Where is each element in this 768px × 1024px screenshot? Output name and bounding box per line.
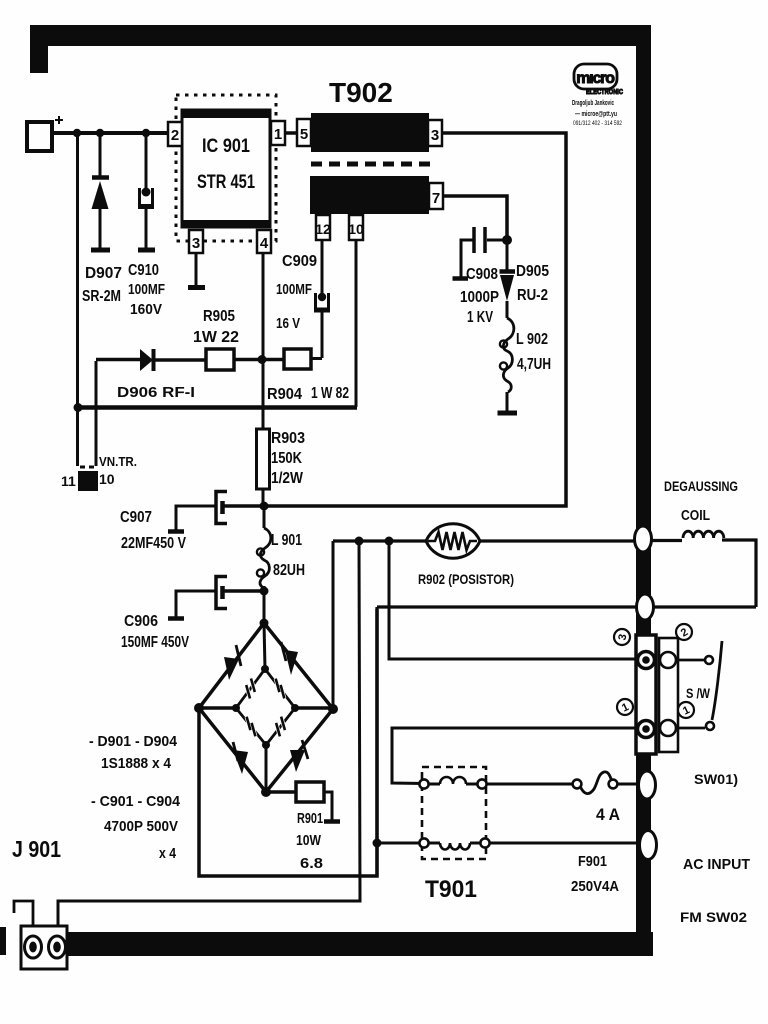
node left vertex xyxy=(194,703,204,713)
svg-text:250V4A: 250V4A xyxy=(571,878,619,895)
diode D901 top-left xyxy=(224,645,241,680)
svg-text:4,7UH: 4,7UH xyxy=(517,356,551,373)
svg-text:150K: 150K xyxy=(271,450,303,467)
resistor R901 xyxy=(266,782,340,822)
node inner left xyxy=(232,704,240,712)
transformer T901 dashed box xyxy=(422,767,486,859)
svg-text:R902 (POSISTOR): R902 (POSISTOR) xyxy=(418,571,514,587)
svg-text:1 KV: 1 KV xyxy=(467,309,493,326)
capacitor C907 xyxy=(168,492,265,532)
node bar terminal AC input xyxy=(640,831,657,860)
node junction dot A xyxy=(73,129,81,137)
TOPRAIL xyxy=(27,116,168,491)
svg-text:C907: C907 xyxy=(120,509,152,526)
svg-text:D906 RF-I: D906 RF-I xyxy=(117,384,195,401)
wire R904 right lead xyxy=(311,357,322,360)
svg-text:SR-2M: SR-2M xyxy=(82,288,121,305)
BRIDGE xyxy=(194,541,377,876)
ground xyxy=(324,819,340,824)
svg-text:mıcro: mıcro xyxy=(576,70,615,87)
svg-text:T901: T901 xyxy=(425,876,477,903)
svg-text:D905: D905 xyxy=(516,263,549,280)
svg-text:3: 3 xyxy=(431,127,439,144)
svg-text:2: 2 xyxy=(171,127,179,144)
svg-text:100MF: 100MF xyxy=(276,281,312,298)
node inner right xyxy=(291,704,299,712)
svg-text:— microe@ptt.yu: — microe@ptt.yu xyxy=(575,109,617,118)
svg-text:1: 1 xyxy=(274,126,282,143)
svg-text:22MF450 V: 22MF450 V xyxy=(121,535,187,552)
node bar terminal degauss return xyxy=(637,594,654,620)
svg-text:R904: R904 xyxy=(267,386,302,403)
wire input to pin2 xyxy=(52,131,168,135)
wire VN.TR. left lead xyxy=(95,361,98,466)
connector block outer xyxy=(659,638,678,752)
pin 5 xyxy=(297,119,311,146)
node junction C906/L901 xyxy=(260,587,269,596)
transformer core dashed line xyxy=(311,162,434,167)
bridge enclosure box xyxy=(199,609,377,876)
label circled 3 xyxy=(614,629,630,645)
svg-text:COIL: COIL xyxy=(681,508,710,524)
connector block inner xyxy=(636,635,656,754)
svg-text:ELECTRONIC: ELECTRONIC xyxy=(586,87,623,96)
svg-text:11: 11 xyxy=(61,473,76,489)
svg-text:Dragoljub Jankovic: Dragoljub Jankovic xyxy=(572,98,614,107)
diode D907 xyxy=(91,133,110,250)
border bottom bar xyxy=(62,932,653,956)
capacitor C901 marks xyxy=(246,679,255,699)
svg-text:x 4: x 4 xyxy=(159,846,176,862)
capacitor C908 xyxy=(453,227,508,279)
capacitor C910 xyxy=(138,133,155,250)
svg-text:C906: C906 xyxy=(124,613,158,630)
LOGO xyxy=(572,64,623,127)
wire inner bottom to bottom vertex xyxy=(265,745,268,792)
ground xyxy=(453,276,469,281)
svg-text:100MF: 100MF xyxy=(128,281,165,298)
capacitor C902 marks xyxy=(276,679,285,699)
svg-text:R905: R905 xyxy=(203,308,235,325)
svg-text:C910: C910 xyxy=(128,262,159,279)
wire left vertex to inner left xyxy=(199,706,236,710)
svg-text:3: 3 xyxy=(192,235,200,252)
pin 7 xyxy=(429,183,443,209)
pin 3 (T902) xyxy=(428,120,442,146)
svg-text:150MF 450V: 150MF 450V xyxy=(121,634,190,651)
label circled 1 left xyxy=(617,699,633,715)
svg-text:4: 4 xyxy=(260,235,269,252)
resistor R905 xyxy=(206,349,234,370)
ACSECTION xyxy=(14,524,756,969)
IC U901 (IC901 STR451) dotted outline xyxy=(176,95,276,241)
svg-text:82UH: 82UH xyxy=(273,562,305,579)
node bar terminal degauss out xyxy=(635,526,652,552)
svg-text:6.8: 6.8 xyxy=(300,856,323,872)
svg-text:5: 5 xyxy=(300,126,308,143)
ground xyxy=(168,616,184,621)
svg-text:L 901: L 901 xyxy=(271,532,302,549)
connector VN.TR. xyxy=(78,467,98,491)
svg-text:DEGAUSSING: DEGAUSSING xyxy=(664,479,738,494)
input terminal box xyxy=(27,122,52,151)
wire top vertex to inner top xyxy=(264,623,265,669)
svg-text:SW01): SW01) xyxy=(694,771,738,787)
plus mark xyxy=(55,116,63,124)
svg-text:16 V: 16 V xyxy=(276,315,300,332)
fuse F901 xyxy=(573,772,640,794)
pin 1 xyxy=(271,121,285,145)
svg-text:10W: 10W xyxy=(296,833,321,849)
svg-text:1 W 82: 1 W 82 xyxy=(311,385,349,402)
resistor R902 posistor xyxy=(426,524,480,559)
pin 3 xyxy=(189,230,203,253)
ground xyxy=(138,248,155,253)
wire J901 left pin xyxy=(14,901,33,926)
T901 winding 2 with terminals xyxy=(377,838,640,849)
diode D906 xyxy=(96,349,206,371)
svg-text:- C901 - C904: - C901 - C904 xyxy=(91,793,181,810)
wire C906 node to bridge top xyxy=(263,591,266,623)
node junction C907/L901/R903 xyxy=(260,502,269,511)
node top vertex xyxy=(260,619,269,628)
svg-text:1/2W: 1/2W xyxy=(271,470,303,487)
capacitor C904 marks xyxy=(276,717,285,737)
logo micro electronic stamp xyxy=(574,64,623,96)
ground xyxy=(498,411,518,416)
svg-text:10: 10 xyxy=(99,471,115,487)
wire J901 riser xyxy=(58,541,360,926)
T902SECTION xyxy=(74,113,567,506)
node junction dot C xyxy=(142,129,150,137)
wire B to connector pin2 xyxy=(389,541,636,659)
T901 winding 1 with terminals xyxy=(419,777,572,789)
node junction R905/R904/R903/pin4 xyxy=(258,355,267,364)
svg-text:STR 451: STR 451 xyxy=(197,172,255,193)
wire right vertex up to degauss row xyxy=(332,541,335,708)
bridge outer diamond D901-D904 xyxy=(199,623,333,792)
switch S/W contacts xyxy=(678,641,722,730)
wire inner right to right vertex xyxy=(295,706,333,710)
pin 4 xyxy=(257,230,271,253)
page edge mark xyxy=(0,927,6,955)
label circled 1 right xyxy=(678,702,694,718)
node junction x360 xyxy=(355,537,364,546)
ground xyxy=(91,248,110,253)
node junction C908/D905 xyxy=(502,235,512,245)
svg-text:RU-2: RU-2 xyxy=(517,287,548,304)
svg-text:160V: 160V xyxy=(130,301,162,318)
SNUBBER xyxy=(453,227,518,413)
pin 10 xyxy=(348,215,364,240)
inductor L902 xyxy=(498,301,518,413)
wire pin10 down and left xyxy=(355,240,358,407)
svg-text:7: 7 xyxy=(432,190,440,207)
svg-text:- D901 - D904: - D901 - D904 xyxy=(89,733,178,750)
wire pin1 to pin5 xyxy=(285,131,297,135)
node junction dot B xyxy=(96,129,104,137)
svg-text:T902: T902 xyxy=(329,77,393,108)
border top bar xyxy=(30,25,650,46)
transformer T902 primary winding xyxy=(311,113,429,152)
pin 2 xyxy=(168,122,182,146)
svg-text:10: 10 xyxy=(348,221,364,237)
node junction T901 top wire xyxy=(373,839,382,848)
diode D904 bottom-right xyxy=(290,740,308,772)
svg-text:R901: R901 xyxy=(297,811,323,827)
diode D905 xyxy=(500,240,516,301)
inductor L901 xyxy=(257,506,271,591)
node junction x389 xyxy=(385,537,394,546)
wire A degauss return xyxy=(377,605,756,608)
wire pin12 down to C909 xyxy=(321,240,324,294)
ICSECTION xyxy=(168,95,297,429)
resistor R903 xyxy=(257,429,270,489)
svg-text:J 901: J 901 xyxy=(12,836,61,862)
degaussing coil xyxy=(683,531,724,538)
svg-text:L 902: L 902 xyxy=(516,331,548,348)
svg-text:1000P: 1000P xyxy=(460,289,499,306)
connector J901 xyxy=(21,926,67,969)
diode D903 bottom-left xyxy=(233,742,248,774)
node right vertex xyxy=(328,704,338,714)
node junction pin10 rail xyxy=(74,403,83,412)
label circled 2 xyxy=(676,624,692,640)
IC IC901 body xyxy=(182,110,270,227)
wire pin4 down xyxy=(262,253,265,429)
svg-text:FM SW02: FM SW02 xyxy=(680,910,747,925)
svg-text:4700P 500V: 4700P 500V xyxy=(104,818,178,835)
wire C to T901 xyxy=(392,728,636,784)
pin 12 xyxy=(315,215,331,240)
svg-text:F901: F901 xyxy=(578,854,607,870)
capacitor C906 xyxy=(168,577,265,619)
svg-text:R903: R903 xyxy=(271,430,305,447)
svg-text:C908: C908 xyxy=(466,266,498,283)
svg-text:C909: C909 xyxy=(282,253,317,270)
svg-text:1W 22: 1W 22 xyxy=(193,329,239,346)
wire R903 bottom to node xyxy=(262,489,265,506)
node bar terminal fuse xyxy=(639,771,656,799)
node bottom vertex xyxy=(261,787,271,797)
wire pin3 right and down to C907 node xyxy=(265,133,566,506)
MIDSECTION xyxy=(96,293,330,619)
svg-text:091/312 402 - 314 592: 091/312 402 - 314 592 xyxy=(573,120,622,127)
wire R905 to node xyxy=(234,358,284,362)
svg-text:1S1888 x 4: 1S1888 x 4 xyxy=(101,755,172,772)
resistor R904 xyxy=(284,349,311,369)
node inner top xyxy=(261,665,269,673)
wire junction A down xyxy=(76,133,79,466)
svg-text:12: 12 xyxy=(315,221,331,237)
capacitor C909 xyxy=(314,293,330,358)
svg-text:AC INPUT: AC INPUT xyxy=(683,856,750,873)
wire pin7 to snubber xyxy=(443,196,507,240)
pin 3 ground stub xyxy=(195,253,198,286)
border left stub xyxy=(30,25,48,73)
svg-text:4 A: 4 A xyxy=(596,805,620,824)
wire vertical x377 xyxy=(375,607,378,876)
transformer T902 secondary winding xyxy=(310,176,429,214)
wire posistor row xyxy=(333,540,756,607)
svg-text:IC 901: IC 901 xyxy=(202,136,250,157)
node inner bottom xyxy=(262,741,270,749)
svg-text:S /W: S /W xyxy=(686,686,710,701)
svg-text:D907: D907 xyxy=(85,265,122,282)
ground xyxy=(168,529,184,534)
border right bar xyxy=(636,25,651,956)
bridge inner diamond C901-C904 xyxy=(236,669,295,745)
capacitor C903 marks xyxy=(247,717,256,737)
diode D902 top-right xyxy=(281,642,298,675)
svg-text:VN.TR.: VN.TR. xyxy=(99,454,137,469)
